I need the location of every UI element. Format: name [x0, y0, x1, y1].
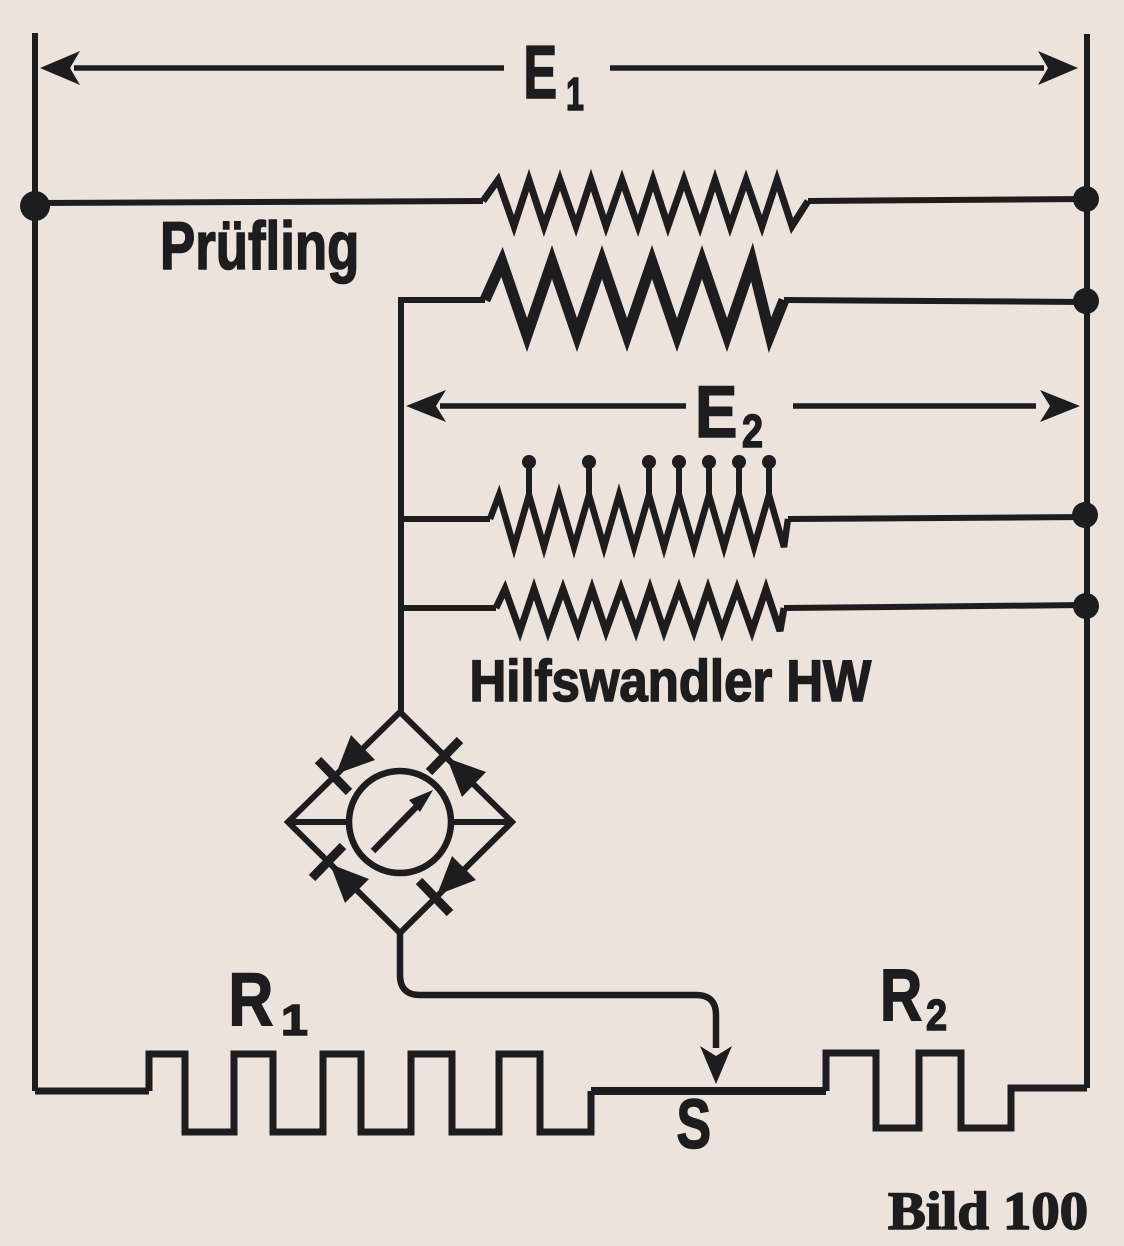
wire: winding 1 left lead [35, 201, 483, 203]
svg-text:2: 2 [926, 990, 947, 1039]
wire: winding 2 left lead and vertical feeder [401, 300, 485, 712]
wire: winding 4 right lead [784, 605, 1085, 608]
svg-text:E: E [523, 30, 557, 114]
diode D1 bar [318, 760, 349, 792]
arrowhead E2 right [1040, 390, 1080, 422]
tap dots winding 3 [522, 455, 536, 469]
svg-text:Prüfling: Prüfling [160, 208, 359, 284]
dimension arrow E1 line left segment [74, 65, 504, 71]
slider arrowhead S [700, 1046, 732, 1084]
svg-text:E: E [695, 372, 737, 453]
diode D4 bar [419, 881, 450, 913]
tap stems of winding 3 [529, 468, 769, 497]
label E1 [523, 30, 557, 114]
label Hilfswandler HW [470, 649, 872, 714]
wire: slider track baseline S [591, 1087, 826, 1095]
arrowhead E2 left [406, 390, 446, 422]
diode D1 triangle top-left [336, 735, 375, 774]
bottom resistor chain R1 left lead [35, 1088, 149, 1095]
resistor winding 3 tapped zigzag [490, 495, 788, 547]
diode D3 bar [312, 846, 343, 878]
node dot right bus winding4 [1073, 593, 1099, 619]
wire: winding 2 right lead [784, 300, 1085, 302]
wire: winding 1 right lead [808, 199, 1085, 201]
rectifier bridge diamond [288, 712, 512, 933]
resistor winding 2 zigzag [485, 262, 784, 335]
svg-text:Bild 100: Bild 100 [888, 1181, 1088, 1240]
wire: bridge output to slider [400, 933, 716, 1048]
wire: bridge horizontal link to meter [288, 819, 512, 825]
label R1 [228, 958, 273, 1042]
diode D4 triangle bottom-right [437, 856, 476, 895]
svg-text:1: 1 [566, 69, 584, 120]
node dot right bus winding1 [1073, 186, 1099, 212]
wire: winding 3 left lead [401, 516, 490, 522]
resistor R2 meander [826, 1053, 1087, 1128]
resistor winding 1 (Pruefling) zigzag [483, 180, 808, 226]
svg-text:1: 1 [281, 995, 308, 1044]
arrowhead E1 right [1038, 51, 1078, 85]
svg-text:2: 2 [742, 405, 763, 456]
svg-text:R: R [228, 958, 273, 1042]
dimension arrow E2 line right segment [793, 403, 1036, 409]
diode D2 bar [429, 740, 460, 772]
caption Bild 100 [888, 1181, 1088, 1240]
meter needle [373, 801, 422, 851]
resistor R1 meander [149, 1054, 591, 1132]
dimension arrow E1 line right segment [610, 65, 1044, 71]
label R2 [880, 955, 922, 1037]
svg-text:Hilfswandler HW: Hilfswandler HW [470, 649, 872, 714]
diode D2 triangle top-right [447, 758, 486, 797]
resistor winding 4 (Hilfswandler) zigzag [496, 589, 784, 631]
wire: winding 4 left lead [401, 605, 496, 611]
node dot right bus winding2 [1073, 288, 1099, 314]
label S [677, 1085, 712, 1163]
label Pruefling [160, 208, 359, 284]
wire: left vertical bus [32, 33, 38, 1091]
wire: right vertical bus [1084, 34, 1090, 1088]
meter needle arrowhead [409, 790, 433, 812]
node dot right bus winding3 [1072, 502, 1098, 528]
svg-text:R: R [880, 955, 922, 1037]
node dot left bus [20, 191, 50, 221]
wire: winding 3 right lead [788, 517, 1085, 519]
diode D3 triangle bottom-left [330, 864, 369, 903]
dimension arrow E2 line left segment [440, 403, 686, 409]
meter M circle [349, 771, 451, 873]
svg-text:S: S [677, 1085, 712, 1163]
label E2 [695, 372, 737, 453]
arrowhead E1 left [40, 51, 80, 85]
